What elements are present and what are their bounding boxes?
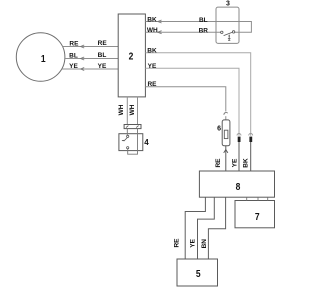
wire RE (unit 2 to fuse 6 and module 8)	[145, 81, 228, 171]
svg-text:2: 2	[129, 51, 134, 62]
fuse 6	[217, 120, 230, 146]
wire loop below switch 4	[128, 129, 138, 155]
switch 3 contacts and blade	[221, 31, 235, 41]
component 1 (motor)	[16, 33, 65, 82]
svg-text:YE: YE	[98, 63, 107, 70]
svg-text:BK: BK	[147, 48, 157, 55]
svg-text:RE: RE	[147, 81, 157, 88]
wire YE (module 8 to module 5)	[189, 197, 214, 259]
svg-text:RE: RE	[98, 40, 108, 47]
svg-text:RE: RE	[69, 41, 79, 48]
switch 4 contacts and blade	[122, 129, 129, 149]
wire RE (module 8 to module 5)	[174, 197, 206, 259]
svg-text:3: 3	[226, 1, 230, 8]
svg-text:BL: BL	[98, 52, 107, 59]
svg-text:BR: BR	[199, 27, 209, 34]
stub wires module 8 to module 7	[247, 197, 268, 200]
svg-text:YE: YE	[148, 63, 157, 70]
svg-text:BK: BK	[147, 16, 157, 23]
svg-text:4: 4	[144, 138, 149, 147]
bullet connector on BK wire	[249, 134, 253, 143]
wire BN (module 8 to module 5)	[201, 197, 226, 259]
svg-text:WH: WH	[147, 27, 158, 34]
svg-text:8: 8	[236, 181, 241, 192]
wire RE (component 1 to unit 2)	[63, 40, 119, 48]
wire BK/BL (unit 2 to switch 3 loop)	[145, 16, 251, 32]
wire WH/BR (unit 2 to switch 3)	[145, 27, 220, 34]
svg-text:RE: RE	[215, 158, 222, 168]
module 8	[199, 171, 274, 197]
svg-text:7: 7	[255, 211, 260, 222]
connector block above switch 4	[124, 125, 141, 129]
svg-text:YE: YE	[69, 63, 78, 70]
svg-text:YE: YE	[189, 238, 196, 247]
svg-text:WH: WH	[118, 104, 125, 115]
wire WH left (unit 2 to connector)	[118, 97, 127, 125]
wire BK (unit 2 to module 8)	[145, 48, 250, 172]
svg-text:RE: RE	[174, 238, 181, 248]
wire YE (component 1 to unit 2)	[62, 63, 118, 71]
module 7	[235, 201, 275, 228]
svg-text:BL: BL	[199, 17, 208, 24]
control unit 2	[118, 14, 145, 97]
svg-text:BL: BL	[69, 52, 78, 59]
wire YE (unit 2 to module 8)	[145, 63, 239, 171]
svg-text:WH: WH	[129, 104, 136, 115]
svg-text:1: 1	[41, 53, 46, 64]
svg-text:BK: BK	[242, 158, 249, 168]
wire WH right (unit 2 to connector)	[129, 97, 137, 125]
svg-text:YE: YE	[231, 158, 238, 167]
switch 4	[119, 134, 149, 151]
svg-text:6: 6	[217, 125, 221, 132]
svg-text:5: 5	[196, 268, 201, 279]
wire BL (component 1 to unit 2)	[65, 52, 118, 60]
module 5	[177, 259, 218, 286]
bullet connector on YE wire	[237, 134, 241, 143]
svg-text:BN: BN	[201, 239, 208, 249]
switch 3	[216, 1, 239, 44]
